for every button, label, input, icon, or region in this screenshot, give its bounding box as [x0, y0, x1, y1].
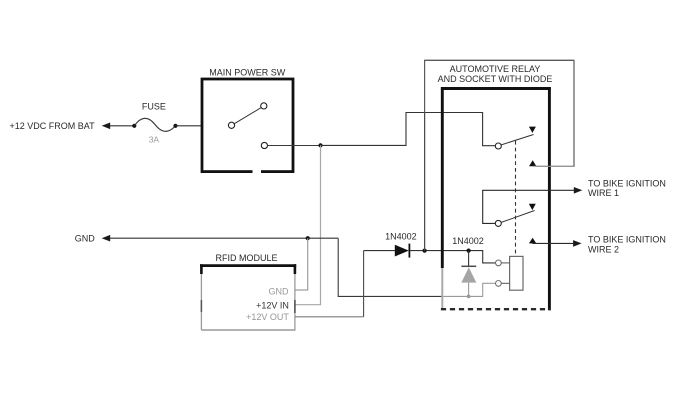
wire loop left edge (darker overdraw): [424, 112, 426, 251]
RFID module box left side: [200, 274, 202, 330]
RFID module box right side: [294, 274, 296, 330]
switch S1 lower throw circle: [261, 142, 267, 148]
wire diode D1 to coil pin 1: [410, 251, 495, 263]
RFID module box right side dark segment: [294, 300, 296, 313]
svg-text:1N4002: 1N4002: [385, 231, 417, 241]
wire +12V loop around relay title: [425, 60, 574, 250]
node C junction dot (loop wire tap): [423, 249, 427, 253]
svg-text:GND: GND: [75, 233, 96, 243]
relay contact 1 lever: [501, 135, 533, 145]
wire +12V OUT pin to riser: [295, 316, 364, 318]
node GND arrow: [102, 235, 111, 242]
svg-text:WIRE 2: WIRE 2: [588, 245, 619, 255]
fuse F1 right terminal dot: [173, 124, 177, 128]
node E junction dot (diode D2 anode to GND, gray): [467, 295, 471, 299]
svg-text:+12V IN: +12V IN: [256, 300, 289, 310]
diode D2 anode stem: [468, 283, 470, 297]
svg-text:AUTOMOTIVE RELAY: AUTOMOTIVE RELAY: [450, 64, 541, 74]
RFID module box right corner stub: [294, 264, 297, 274]
wire fuse to switch box: [176, 125, 203, 127]
svg-text:RFID MODULE: RFID MODULE: [215, 253, 277, 263]
switch box bottom-edge gap (watermark): [253, 169, 262, 173]
wire relay output to WIRE 1: [483, 190, 574, 223]
diode D2 triangle (gray): [461, 267, 476, 282]
relay coil pin 2 circle: [496, 281, 502, 287]
diode D2 cathode stem: [468, 251, 470, 267]
relay box bottom border (dashed): [441, 308, 551, 310]
svg-text:MAIN POWER SW: MAIN POWER SW: [209, 68, 286, 78]
wire GND main run: [110, 237, 338, 239]
node B junction dot (GND to RFID): [306, 236, 310, 240]
relay box top border: [441, 87, 551, 90]
switch S1 upper throw circle: [261, 103, 267, 109]
svg-text:WIRE 1: WIRE 1: [588, 188, 619, 198]
relay contact 1 common circle: [495, 143, 501, 149]
svg-text:TO BIKE IGNITION: TO BIKE IGNITION: [588, 234, 666, 244]
node +12VDC arrow: [102, 123, 111, 130]
diode D1 cathode bar: [408, 244, 410, 258]
wire GND branch to RFID GND pin: [295, 238, 308, 290]
svg-text:+12V OUT: +12V OUT: [246, 312, 289, 322]
fuse F1 left terminal dot: [132, 124, 136, 128]
wire GND run inside relay box to coil pin 2: [442, 283, 496, 296]
wire NO terminal to loop: [533, 165, 574, 167]
svg-text:+12 VDC FROM BAT: +12 VDC FROM BAT: [10, 121, 96, 131]
relay box right border: [548, 87, 551, 310]
wire switch to node A: [268, 145, 321, 147]
svg-text:GND: GND: [269, 287, 290, 297]
switch S1 lever: [234, 108, 261, 124]
wire loop top edge (light): [425, 59, 574, 61]
wire node A to relay contact 1 (zigzag): [321, 113, 496, 146]
relay coil pin 1 stub: [501, 262, 509, 264]
diode D2 cathode bar: [461, 265, 476, 267]
node A junction dot: [318, 143, 322, 147]
svg-text:AND SOCKET WITH DIODE: AND SOCKET WITH DIODE: [438, 74, 553, 84]
RFID module box left side dark segment: [200, 300, 202, 312]
wire +12V OUT riser: [363, 251, 365, 317]
relay contact 1 NO terminal (up triangle): [529, 160, 536, 166]
relay coil body: [510, 256, 523, 290]
RFID module box left corner stub: [200, 264, 203, 274]
node D junction dot (diode D2 cathode tap): [467, 249, 471, 253]
wire NO terminal 2 to WIRE 2 arrow: [532, 242, 574, 244]
relay mechanical linkage (dash-dot): [515, 141, 517, 256]
switch box MAIN POWER SW: [202, 79, 293, 172]
wire node A down to +12V IN pin: [295, 145, 321, 304]
relay contact 2 NC terminal (down triangle): [529, 204, 536, 210]
node WIRE2 arrow: [573, 240, 582, 247]
relay contact 2 NO terminal (up triangle): [529, 238, 536, 244]
fuse F1 body: [134, 118, 175, 131]
svg-text:FUSE: FUSE: [142, 102, 166, 112]
RFID module box top border: [200, 264, 296, 267]
relay coil pin 2 stub: [501, 282, 509, 284]
wire riser to diode D1: [364, 250, 395, 252]
wire arrow to fuse: [110, 125, 134, 127]
svg-text:1N4002: 1N4002: [452, 236, 484, 246]
relay box left border: [441, 87, 444, 268]
switch S1 pole circle: [228, 122, 234, 128]
relay contact 2 lever: [501, 211, 534, 223]
wire GND run down to relay coil: [338, 238, 442, 296]
relay coil pin 1 circle: [496, 260, 502, 266]
relay contact 1 NC terminal (down triangle): [529, 127, 536, 133]
relay box left border lower (faded): [441, 268, 443, 309]
node WIRE1 arrow: [574, 187, 583, 194]
svg-text:3A: 3A: [149, 135, 160, 145]
diode D1 1N4002 triangle: [395, 245, 409, 257]
relay contact 2 common circle: [495, 220, 501, 226]
RFID module box bottom side: [201, 329, 295, 331]
